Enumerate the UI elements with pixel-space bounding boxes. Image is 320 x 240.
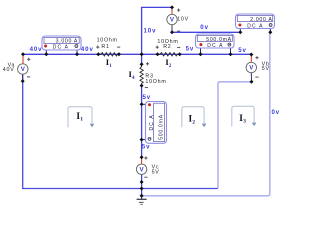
node ground junction <box>140 194 144 198</box>
node R3 top <box>140 62 144 66</box>
svg-text:0v: 0v <box>200 24 209 31</box>
resistor R3 vertical <box>140 62 167 87</box>
resistor R1 <box>96 38 120 56</box>
svg-text:0v: 0v <box>272 109 281 116</box>
node R2 right <box>178 52 182 56</box>
wire left vertical from Va down <box>23 74 218 189</box>
svg-text:5V: 5V <box>262 66 270 72</box>
ammeter U1 leads <box>45 50 47 55</box>
svg-text:1: 1 <box>80 116 83 122</box>
resistor R2 <box>156 39 181 56</box>
svg-text:R2: R2 <box>163 44 171 50</box>
node V1 minus <box>170 30 174 34</box>
node Vc plus <box>140 155 144 159</box>
wire center vertical upper net 10v <box>141 7 143 64</box>
svg-text:5v: 5v <box>143 94 152 101</box>
svg-text:5v: 5v <box>186 46 195 53</box>
ammeter U4 leads <box>142 103 146 105</box>
mesh loop I2 <box>182 107 207 127</box>
node R1 right <box>117 52 121 56</box>
node bottom wire cross <box>140 187 144 191</box>
voltage source Vc 5V bottom <box>136 156 159 177</box>
svg-text:5v: 5v <box>238 47 247 54</box>
ground <box>137 199 147 204</box>
svg-text:2.000 A: 2.000 A <box>250 17 272 23</box>
node U1 left <box>44 52 48 56</box>
svg-text:40v: 40v <box>81 46 94 53</box>
svg-text:5v: 5v <box>142 143 151 150</box>
ammeter U3 2.000 A <box>236 14 275 30</box>
svg-text:40V: 40V <box>3 67 15 73</box>
node V1 plus <box>170 5 174 9</box>
node U4 bottom <box>140 138 144 142</box>
node R2 left <box>156 52 160 56</box>
mesh loop I3 <box>232 106 257 126</box>
wire ground to right edge light periwinkle net 0v <box>142 33 270 196</box>
wire V1 minus to ammeter U3 net 0v <box>172 31 240 33</box>
wire center vertical between R3 and Vc net 5v <box>141 86 143 158</box>
ammeter U2 leads <box>200 48 202 55</box>
node center cross <box>140 52 144 56</box>
node Vc minus <box>140 180 144 184</box>
svg-text:3: 3 <box>243 119 246 125</box>
svg-text:DC A: DC A <box>207 43 223 49</box>
node U3 left <box>238 30 242 34</box>
node Vb minus <box>250 80 254 84</box>
svg-text:DC A: DC A <box>247 24 263 30</box>
node Va top <box>21 52 25 56</box>
voltage source Vb 5V <box>246 54 270 82</box>
node U3 right <box>268 30 272 34</box>
wire Vb minus light periwinkle <box>218 82 252 189</box>
node U4 top <box>140 102 144 106</box>
svg-text:10V: 10V <box>177 16 189 22</box>
node Va bottom <box>21 79 25 83</box>
ammeter U4 500.0mA vertical <box>146 102 167 144</box>
node U2 left <box>199 52 203 56</box>
node R1 left <box>96 52 100 56</box>
svg-text:40v: 40v <box>30 46 43 53</box>
svg-text:10Ohm: 10Ohm <box>97 38 118 44</box>
voltage source Va 40V <box>3 54 31 81</box>
wire top horizontal net 40v/5v <box>23 53 251 55</box>
wire Vc bottom to ground <box>141 175 143 200</box>
mesh loop I1 <box>68 107 94 128</box>
voltage source V1 10V top <box>167 7 189 32</box>
svg-text:DC A: DC A <box>53 44 69 50</box>
svg-text:R1: R1 <box>101 44 109 50</box>
ammeter U1 3.000 A <box>42 36 81 50</box>
svg-text:500.0mA: 500.0mA <box>159 114 165 140</box>
svg-text:5V: 5V <box>152 169 160 175</box>
svg-text:DC A: DC A <box>149 114 155 130</box>
ammeter U3 leads <box>239 29 241 33</box>
node Vb plus <box>249 53 253 57</box>
wire V1 top horizontal <box>142 6 172 8</box>
svg-text:10v: 10v <box>144 27 157 34</box>
svg-text:10Ohm: 10Ohm <box>145 79 166 85</box>
node U2 right <box>229 52 233 56</box>
node R3 bottom <box>140 84 144 88</box>
node U1 right <box>75 52 79 56</box>
svg-text:2: 2 <box>192 119 195 125</box>
ammeter U2 500.0mA <box>196 34 235 49</box>
